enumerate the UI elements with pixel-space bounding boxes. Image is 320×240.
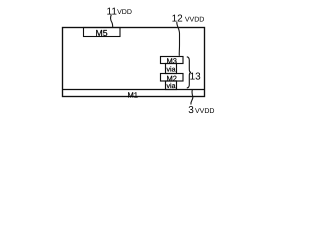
metal M3 box xyxy=(161,57,184,64)
svg-text:via: via xyxy=(167,65,176,73)
cell boundary rectangle xyxy=(63,28,205,97)
svg-text:3: 3 xyxy=(188,105,194,116)
svg-text:VVDD: VVDD xyxy=(195,108,214,115)
svg-text:M5: M5 xyxy=(95,28,107,38)
via between M2 and M1 xyxy=(166,81,177,90)
svg-text:VDD: VDD xyxy=(117,9,132,16)
leader line from 12 to M3 xyxy=(177,22,180,56)
svg-text:13: 13 xyxy=(190,72,202,83)
leader line from 3 to M1 rail xyxy=(191,90,193,105)
metal M1 rail top edge xyxy=(63,89,205,91)
svg-text:M2: M2 xyxy=(166,74,176,83)
svg-text:12: 12 xyxy=(172,14,184,25)
svg-text:M1: M1 xyxy=(127,91,137,100)
leader line from 11 to M5 xyxy=(111,15,113,28)
svg-text:via: via xyxy=(167,82,176,90)
svg-text:M3: M3 xyxy=(166,57,176,66)
svg-text:VVDD: VVDD xyxy=(185,16,204,23)
metal M5 strap xyxy=(84,28,121,37)
brace for via stack 13 xyxy=(187,57,191,88)
via between M3 and M2 xyxy=(166,64,177,74)
metal M2 box xyxy=(161,74,184,82)
svg-text:11: 11 xyxy=(107,6,118,17)
